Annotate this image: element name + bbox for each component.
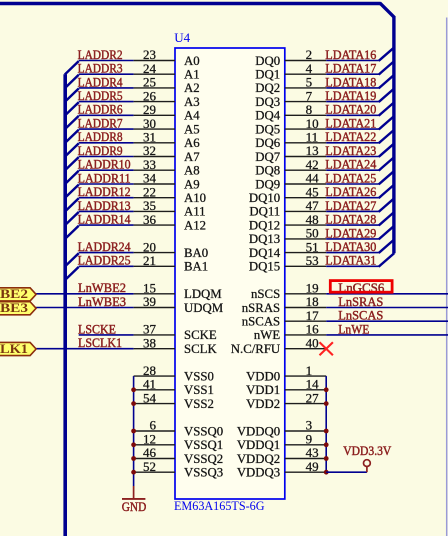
bus entry LDATA19: [379, 88, 395, 102]
svg-text:LDATA28: LDATA28: [325, 212, 376, 227]
svg-text:BA0: BA0: [184, 246, 208, 260]
svg-text:DQ14: DQ14: [249, 246, 281, 260]
junction: [131, 470, 136, 475]
svg-text:VSSQ0: VSSQ0: [184, 424, 223, 438]
pin 32 (A7) lead: [134, 156, 175, 158]
pin 34 (A9) lead: [134, 183, 175, 185]
pin 50 (DQ13) lead: [285, 238, 326, 240]
pin 18 (nSRAS) lead: [285, 307, 326, 309]
svg-text:41: 41: [143, 377, 156, 392]
bus entry LDATA25: [379, 171, 395, 185]
pin 29 (A4) lead: [134, 114, 175, 116]
bus entry LADDR10: [65, 171, 79, 184]
wire LDATA26: [326, 197, 379, 199]
wire LDATA27: [326, 210, 379, 212]
svg-text:33: 33: [143, 157, 156, 172]
svg-text:48: 48: [306, 212, 319, 227]
svg-text:DQ5: DQ5: [255, 122, 280, 136]
pin 3 (VDDQ0) lead: [285, 430, 326, 432]
svg-text:DQ12: DQ12: [249, 218, 280, 232]
pin 54 (VSS2) lead: [134, 403, 175, 405]
svg-text:A8: A8: [184, 164, 200, 178]
svg-text:VDD1: VDD1: [246, 383, 280, 397]
svg-text:VDD0: VDD0: [246, 369, 280, 383]
svg-text:UDQM: UDQM: [184, 301, 223, 315]
bus entry LADDR6: [65, 116, 79, 129]
svg-text:36: 36: [143, 212, 157, 227]
svg-text:A5: A5: [184, 122, 200, 136]
svg-text:8: 8: [306, 102, 313, 117]
ground stem: [133, 486, 135, 499]
svg-text:DQ11: DQ11: [249, 205, 280, 219]
svg-text:VSS2: VSS2: [184, 397, 214, 411]
svg-text:40: 40: [306, 335, 319, 350]
wire VDD vertical: [325, 376, 327, 472]
bus entry LADDR25: [65, 267, 79, 280]
wire LDATA17: [326, 73, 379, 75]
wire LDATA20: [326, 114, 379, 116]
svg-text:N.C/RFU: N.C/RFU: [231, 342, 280, 356]
svg-text:49: 49: [306, 459, 319, 474]
pin 8 (DQ4) lead: [285, 114, 326, 116]
svg-text:LADDR25: LADDR25: [78, 253, 131, 268]
svg-text:LDATA24: LDATA24: [325, 157, 376, 172]
svg-text:LADDR10: LADDR10: [78, 157, 131, 172]
wire LADDR8: [79, 142, 134, 144]
bus entry LADDR11: [65, 185, 79, 198]
wire LADDR6: [79, 114, 134, 116]
svg-text:BA1: BA1: [184, 260, 208, 274]
svg-text:VDD2: VDD2: [246, 397, 280, 411]
pin 45 (DQ10) lead: [285, 197, 326, 199]
pin 4 (DQ1) lead: [285, 73, 326, 75]
bus entry LDATA22: [379, 130, 395, 144]
svg-text:VSSQ1: VSSQ1: [184, 438, 223, 452]
svg-text:nSRAS: nSRAS: [242, 301, 280, 315]
svg-text:42: 42: [306, 157, 319, 172]
bus entry LADDR13: [65, 212, 79, 225]
svg-text:LDATA31: LDATA31: [325, 253, 376, 268]
svg-text:LnWE: LnWE: [338, 321, 369, 336]
wire LnWE: [326, 334, 448, 336]
svg-text:SCLK: SCLK: [184, 342, 217, 356]
svg-text:LSCLK1: LSCLK1: [78, 335, 122, 350]
port LnWBE3: [0, 302, 36, 315]
pin 7 (DQ3) lead: [285, 101, 326, 103]
wire LADDR2: [79, 60, 134, 62]
pin 21 (BA1) lead: [134, 265, 175, 267]
pin 52 (VSSQ3) lead: [134, 471, 175, 473]
pin 37 (SCKE) lead: [134, 334, 175, 336]
svg-text:VDDQ1: VDDQ1: [237, 438, 280, 452]
highlight box LnGCS6: [330, 281, 392, 293]
wire LADDR7: [79, 128, 134, 130]
svg-text:DQ10: DQ10: [249, 191, 280, 205]
svg-text:BE3: BE3: [0, 301, 28, 315]
wire LnWBE3: [36, 307, 134, 309]
pin 27 (VDD2) lead: [285, 403, 326, 405]
svg-text:GND: GND: [122, 499, 147, 514]
wire LDATA31: [326, 265, 379, 267]
pin 49 (VDDQ3) lead: [285, 471, 326, 473]
wire LSCKE: [79, 334, 134, 336]
svg-text:DQ6: DQ6: [255, 136, 280, 150]
wire LADDR25: [79, 265, 134, 267]
svg-text:3: 3: [306, 418, 313, 433]
wire LADDR10: [79, 169, 134, 171]
pin 1 (VDD0) lead: [285, 375, 326, 377]
bus entry LDATA18: [379, 75, 395, 89]
junction: [324, 470, 329, 475]
no-connect X pin 40: [320, 342, 333, 355]
wire LADDR3: [79, 73, 134, 75]
IC U4 body: [175, 48, 285, 499]
wire LADDR14: [79, 224, 134, 226]
wire LDATA18: [326, 87, 379, 89]
junction: [324, 456, 329, 461]
bus entry LADDR9: [65, 157, 79, 170]
svg-text:LnWBE3: LnWBE3: [78, 294, 126, 309]
junction: [324, 387, 329, 392]
wire LnWBE2: [36, 293, 134, 295]
svg-text:21: 21: [143, 253, 156, 268]
pin 25 (A2) lead: [134, 87, 175, 89]
svg-text:VDD3.3V: VDD3.3V: [343, 443, 392, 458]
bus entry LDATA30: [379, 239, 395, 253]
power VDD3.3V stem: [366, 466, 368, 472]
pin 26 (A3) lead: [134, 101, 175, 103]
junction: [131, 442, 136, 447]
bus entry LDATA24: [379, 157, 395, 171]
bus entry LADDR7: [65, 130, 79, 143]
svg-text:29: 29: [143, 102, 156, 117]
junction: [131, 429, 136, 434]
wire LADDR13: [79, 210, 134, 212]
svg-text:DQ7: DQ7: [255, 150, 280, 164]
pin 43 (VDDQ2) lead: [285, 458, 326, 460]
wire LnSRAS: [326, 307, 448, 309]
svg-text:LK1: LK1: [0, 342, 28, 356]
svg-text:A2: A2: [184, 81, 200, 95]
bus entry LDATA20: [379, 102, 395, 116]
svg-text:LADDR14: LADDR14: [78, 212, 131, 227]
bus entry LDATA21: [379, 116, 395, 130]
svg-text:U4: U4: [174, 30, 190, 45]
svg-text:A12: A12: [184, 218, 206, 232]
junction: [131, 401, 136, 406]
bus entry LADDR5: [65, 102, 79, 115]
svg-text:DQ3: DQ3: [255, 95, 280, 109]
pin 2 (DQ0) lead: [285, 60, 326, 62]
svg-text:EM63A165TS-6G: EM63A165TS-6G: [174, 498, 265, 513]
bus entry LDATA23: [379, 143, 395, 157]
wire LDATA25: [326, 183, 379, 185]
pin 39 (UDQM) lead: [134, 307, 175, 309]
svg-text:LDATA20: LDATA20: [325, 102, 376, 117]
pin 38 (SCLK) lead: [134, 348, 175, 350]
svg-text:VSSQ2: VSSQ2: [184, 452, 223, 466]
junction: [131, 387, 136, 392]
wire LDATA28: [326, 224, 379, 226]
svg-text:VSS1: VSS1: [184, 383, 214, 397]
wire LADDR4: [79, 87, 134, 89]
wire LADDR11: [79, 183, 134, 185]
bus LDATA right vertical: [392, 16, 395, 253]
junction: [131, 456, 136, 461]
pin 17 (nSCAS) lead: [285, 320, 326, 322]
svg-text:A7: A7: [184, 150, 200, 164]
svg-text:14: 14: [306, 377, 320, 392]
pin 20 (BA0) lead: [134, 252, 175, 254]
bus entry LDATA16: [379, 47, 395, 61]
svg-text:A11: A11: [184, 205, 206, 219]
svg-text:38: 38: [143, 335, 156, 350]
bus entry LDATA31: [379, 253, 395, 267]
bus entry LDATA26: [379, 185, 395, 199]
pin 11 (DQ6) lead: [285, 142, 326, 144]
svg-text:BE2: BE2: [0, 287, 28, 301]
wire LADDR9: [79, 156, 134, 158]
svg-text:A4: A4: [184, 109, 200, 123]
pin 51 (DQ14) lead: [285, 252, 326, 254]
svg-text:DQ9: DQ9: [255, 177, 280, 191]
junction: [324, 442, 329, 447]
pin 24 (A1) lead: [134, 73, 175, 75]
svg-text:DQ8: DQ8: [255, 164, 280, 178]
svg-text:nWE: nWE: [254, 328, 280, 342]
port LSCLK1: [0, 342, 36, 355]
junction: [324, 401, 329, 406]
wire LnSCAS: [326, 320, 448, 322]
pin 22 (A10) lead: [134, 197, 175, 199]
svg-text:VDDQ2: VDDQ2: [237, 452, 280, 466]
wire LDATA19: [326, 101, 379, 103]
svg-text:A6: A6: [184, 136, 200, 150]
pin 40 (N.C/RFU) lead: [285, 348, 326, 350]
pin 48 (DQ12) lead: [285, 224, 326, 226]
pin 5 (DQ2) lead: [285, 87, 326, 89]
wire right sheet edge: [446, 18, 448, 536]
bus LDATA corner bend: [380, 3, 395, 18]
bus entry LDATA29: [379, 226, 395, 240]
wire LDATA16: [326, 60, 379, 62]
pin 23 (A0) lead: [134, 60, 175, 62]
svg-text:37: 37: [143, 322, 157, 337]
wire LDATA30: [326, 252, 379, 254]
wire VSS vertical: [133, 376, 135, 486]
wire LDATA29: [326, 238, 379, 240]
pin 9 (VDDQ1) lead: [285, 444, 326, 446]
svg-text:27: 27: [306, 390, 320, 405]
pin 10 (DQ5) lead: [285, 128, 326, 130]
svg-text:DQ0: DQ0: [255, 54, 280, 68]
svg-text:54: 54: [143, 390, 157, 405]
svg-text:39: 39: [143, 294, 156, 309]
pin 12 (VSSQ1) lead: [134, 444, 175, 446]
bus entry LDATA27: [379, 198, 395, 212]
pin 19 (nSCS) lead: [285, 293, 326, 295]
pin 30 (A5) lead: [134, 128, 175, 130]
svg-text:VDDQ0: VDDQ0: [237, 424, 280, 438]
bus entry LADDR14: [65, 226, 79, 239]
pin 41 (VSS1) lead: [134, 389, 175, 391]
pin 33 (A8) lead: [134, 169, 175, 171]
svg-text:DQ1: DQ1: [255, 68, 280, 82]
wire LADDR24: [79, 252, 134, 254]
pin 13 (DQ7) lead: [285, 156, 326, 158]
svg-text:LDQM: LDQM: [184, 287, 222, 301]
svg-text:VSSQ3: VSSQ3: [184, 466, 223, 480]
svg-text:A0: A0: [184, 54, 200, 68]
svg-text:A1: A1: [184, 68, 200, 82]
svg-text:6: 6: [150, 418, 157, 433]
pin 16 (nWE) lead: [285, 334, 326, 336]
wire LADDR12: [79, 197, 134, 199]
bus entry LADDR2: [65, 61, 79, 74]
svg-text:A10: A10: [184, 191, 206, 205]
bus LDATA top horizontal: [0, 2, 381, 5]
svg-text:VSS0: VSS0: [184, 369, 214, 383]
svg-text:DQ4: DQ4: [255, 109, 280, 123]
wire LDATA22: [326, 142, 379, 144]
pin 28 (VSS0) lead: [134, 375, 175, 377]
svg-text:nSCAS: nSCAS: [242, 315, 280, 329]
pin 14 (VDD1) lead: [285, 389, 326, 391]
pin 42 (DQ8) lead: [285, 169, 326, 171]
svg-text:DQ13: DQ13: [249, 232, 280, 246]
pin 46 (VSSQ2) lead: [134, 458, 175, 460]
bus entry LDATA17: [379, 61, 395, 75]
wire LDATA23: [326, 156, 379, 158]
bus LADDR left vertical: [63, 74, 67, 536]
bus entry LADDR8: [65, 143, 79, 156]
wire LSCLK1: [36, 348, 134, 350]
svg-text:SCKE: SCKE: [184, 328, 217, 342]
bus entry LADDR3: [65, 75, 79, 88]
svg-text:A9: A9: [184, 177, 200, 191]
wire LnGCS6: [326, 293, 448, 295]
wire to VDD3.3V: [326, 471, 367, 473]
svg-text:52: 52: [143, 459, 156, 474]
wire LDATA21: [326, 128, 379, 130]
svg-text:DQ2: DQ2: [255, 81, 280, 95]
pin 47 (DQ11) lead: [285, 210, 326, 212]
pin 35 (A11) lead: [134, 210, 175, 212]
pin 31 (A6) lead: [134, 142, 175, 144]
bus entry LADDR4: [65, 89, 79, 102]
bus entry LADDR12: [65, 198, 79, 211]
svg-text:53: 53: [306, 253, 319, 268]
svg-text:16: 16: [306, 322, 320, 337]
svg-text:LADDR6: LADDR6: [78, 102, 123, 117]
svg-text:nSCS: nSCS: [251, 287, 280, 301]
wire LADDR5: [79, 101, 134, 103]
ground bar: [122, 498, 145, 500]
svg-text:VDDQ3: VDDQ3: [237, 466, 280, 480]
pin 53 (DQ15) lead: [285, 265, 326, 267]
pin 15 (LDQM) lead: [134, 293, 175, 295]
wire LDATA24: [326, 169, 379, 171]
port LnWBE2: [0, 288, 36, 301]
pin 36 (A12) lead: [134, 224, 175, 226]
svg-text:A3: A3: [184, 95, 200, 109]
pin 6 (VSSQ0) lead: [134, 430, 175, 432]
pin 44 (DQ9) lead: [285, 183, 326, 185]
bus entry LDATA28: [379, 212, 395, 226]
svg-text:LSCKE: LSCKE: [78, 321, 116, 336]
power VDD3.3V circle: [364, 460, 371, 467]
svg-text:DQ15: DQ15: [249, 260, 280, 274]
bus entry LADDR24: [65, 253, 79, 266]
junction: [324, 429, 329, 434]
